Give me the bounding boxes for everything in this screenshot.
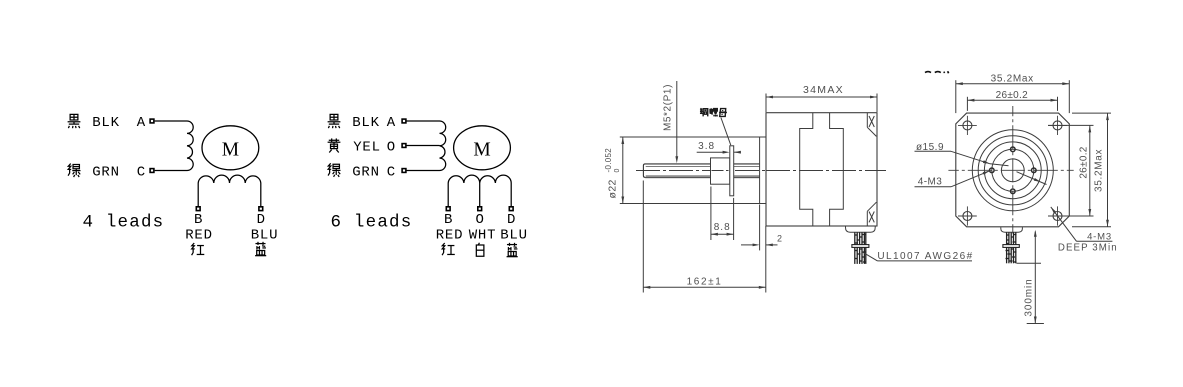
label O [475,212,483,228]
label RED [185,228,213,244]
wire A to coil [155,120,187,122]
pilot circle inner [1001,159,1024,182]
lead wire grommet (side view) [846,226,876,232]
label WHT [469,228,497,244]
M3 tapped hole E [1032,168,1037,173]
svg-text:8.8: 8.8 [714,222,731,233]
svg-text:O: O [475,212,483,228]
svg-text:35.2Max: 35.2Max [991,74,1034,85]
M3 tapped hole W [990,168,995,173]
svg-text:BLK: BLK [92,115,120,131]
svg-text:BLK: BLK [352,115,380,131]
wiring label GRN C (4-lead) [68,164,145,181]
terminal C (6-lead) [402,169,406,173]
dim 35.2Max(right) text [1094,149,1105,192]
svg-text:-0.052: -0.052 [604,148,613,173]
nut body (copper nut) [711,158,730,184]
dim 300min line [1034,230,1037,324]
dim 3.8 text [698,141,715,152]
motor M (6-lead) [454,126,511,170]
front face plate [956,113,1070,227]
label BLU [500,228,528,244]
motor body (side view) [766,113,877,226]
label ø15.9 leader inner segment [1017,172,1047,185]
caption 4 leads [82,213,164,233]
svg-text:34MAX: 34MAX [803,84,844,96]
svg-text:C: C [137,165,145,181]
dim 26±0.2(top) text [996,90,1028,101]
svg-text:UL1007 AWG26#: UL1007 AWG26# [877,251,973,262]
dim 35.2Max(right) ext lines [1072,113,1111,227]
terminal B (4-lead) [196,207,200,211]
concentric circle r40.5 [972,130,1053,211]
dim 35.2Max(top) ext lines [956,80,1070,113]
svg-text:26±0.2: 26±0.2 [1078,146,1089,178]
label 4-M3 text [918,177,942,188]
leader UL1007 [862,252,973,261]
svg-text:2: 2 [777,234,782,244]
label hong (red cn) [192,243,205,255]
svg-text:0: 0 [614,168,621,172]
dim 34MAX ext lines [766,94,877,113]
wiring label BLK A (4-lead) [68,114,146,131]
lead wire bundle (front view) [1006,232,1017,263]
wiring label GRN C (6-lead) [328,163,395,180]
wire coil to terminal B [197,183,199,206]
dim 300min ext line [1017,262,1042,264]
svg-text:O: O [387,140,395,156]
svg-text:BLU: BLU [251,228,279,244]
stator stack outline [800,113,844,226]
mounting hole bottom-left [958,206,977,225]
terminal D (6-lead) [509,207,513,211]
front view vertical centerline [1012,106,1014,234]
label UL1007 AWG26# [877,251,973,262]
svg-text:M: M [222,139,239,160]
concentric circle r28.4 [984,142,1041,199]
label ø15.9 text [916,142,944,153]
svg-text:RED: RED [436,228,464,244]
wire C to coil [155,170,187,172]
svg-text:GRN: GRN [92,165,120,181]
label D [507,212,515,228]
svg-text:162±1: 162±1 [687,276,723,287]
wire coil to terminal D [260,183,262,206]
lead wire grommet (front view) [1001,227,1023,232]
svg-text:B: B [194,212,202,228]
M3 tapped hole S [1011,189,1016,194]
label D [257,212,265,228]
label BLU [251,228,279,244]
dim ø22 ext lines [620,137,760,204]
motor M (4-lead) [202,126,259,170]
dim M5 leader [675,81,678,163]
dim 300min end tick [1027,323,1044,325]
wiring label YEL O (6-lead) [328,138,396,155]
dim ø22 tolerance text [604,148,621,199]
coil A-C (4-lead phase 1) [187,121,193,171]
label lan (blue cn) [507,243,518,257]
svg-text:RED: RED [185,228,213,244]
coil A-O-C (6-lead phase 1) [440,121,446,171]
label 4-M3 DEEP leader [1051,207,1113,241]
shaft centerline [636,170,886,172]
wiring label BLK A (6-lead) [328,114,396,131]
coil B-D (4-lead phase 2) [198,175,261,183]
mounting hole top-right [1048,116,1067,135]
svg-text:M5*2(P1): M5*2(P1) [663,84,674,131]
svg-text:D: D [507,212,515,228]
mounting hole bottom-right [1048,206,1067,225]
pilot boss (side view) [760,137,766,204]
svg-text:A: A [137,115,146,131]
concentric circle r34.6 [978,136,1047,205]
mounting hole top-left [958,116,977,135]
clipped text remnant [925,71,949,73]
label B [444,212,452,228]
wire collar (side view) [852,245,869,248]
nut centerline dash [712,170,759,172]
svg-text:26±0.2: 26±0.2 [996,90,1028,101]
wire coil to terminal D [510,183,512,206]
wire A to coil [406,120,439,122]
wire coil to terminal B [447,183,449,206]
dim 35.2Max(top) line [956,82,1070,85]
terminal A (4-lead) [150,119,154,123]
dim 35.2Max(top) text [991,74,1034,85]
terminal C (4-lead) [150,169,154,173]
coil B-O-D (6-lead phase 2) [448,175,511,183]
label B [194,212,202,228]
wire collar (front view) [1003,245,1019,248]
dim ø22 line [621,137,624,204]
terminal A (6-lead) [402,119,406,123]
dim 300min text [1024,278,1035,316]
svg-text:WHT: WHT [469,228,497,244]
dim 162±1 text [687,276,723,287]
wire center tap to terminal O [479,183,481,206]
front view horizontal centerline [948,169,1073,171]
label copper nut (cn) [700,108,727,116]
svg-text:6 leads: 6 leads [331,213,413,233]
terminal O (6-lead) [402,144,406,148]
label hong (red cn) [442,243,455,255]
lead wire bundle (side view) [855,232,867,264]
M3 tapped hole N [1011,147,1016,152]
svg-text:BLU: BLU [500,228,528,244]
lead screw shaft [643,164,759,178]
terminal B (6-lead) [446,207,450,211]
svg-text:300min: 300min [1024,278,1035,316]
svg-text:35.2Max: 35.2Max [1094,149,1105,192]
dim 2 ext lines [760,205,766,293]
svg-text:B: B [444,212,452,228]
dim 26±0.2(top) line [967,99,1057,102]
wire O to coil center tap [406,145,439,147]
dim 162 line [643,286,766,289]
dim 8.8 ext lines [711,187,734,241]
svg-text:A: A [387,115,396,131]
svg-text:4-M3: 4-M3 [918,177,942,188]
label bai (white cn) [476,243,484,256]
dim 26±0.2(right) text [1078,146,1089,178]
svg-text:3.8: 3.8 [698,141,715,152]
dim 34MAX text [803,84,844,96]
label 4-M3 leader [915,171,990,187]
corner chamfer mark top-right [867,113,876,137]
dim 34MAX line [766,96,877,99]
terminal D (4-lead) [259,207,263,211]
dim 26±0.2(top) ext lines [967,97,1057,111]
dim 162 ext line left [642,181,644,293]
svg-text:4-M3: 4-M3 [1087,232,1112,243]
corner chamfer mark bottom-right [867,202,876,226]
body centerline segment [766,170,886,172]
terminal O2 (6-lead) [478,207,482,211]
caption 6 leads [331,213,413,233]
label ø15.9 leader [915,151,1009,166]
dim 8.8 line [711,233,734,236]
svg-text:DEEP 3Min: DEEP 3Min [1058,243,1118,254]
leader copper nut [721,118,731,146]
wire C to coil [406,170,439,172]
dim M5*2(P1) text [663,84,674,131]
svg-text:GRN: GRN [352,164,380,180]
label 4-M3 DEEP text [1058,232,1118,254]
label RED [436,228,464,244]
label lan (blue cn) [255,242,266,256]
dim 26±0.2(right) line [1088,125,1091,216]
svg-text:D: D [257,212,265,228]
svg-text:M: M [473,139,490,160]
dim 2 text [777,234,782,244]
svg-text:ø22: ø22 [607,179,619,198]
svg-text:4 leads: 4 leads [82,213,164,233]
dim 3.8 underline+arrows [697,151,741,154]
svg-text:C: C [387,164,395,180]
svg-text:YEL: YEL [353,140,381,156]
dim 8.8 text [714,222,731,233]
concentric circle r21.0 [992,149,1034,191]
dim 35.2Max(right) line [1106,113,1109,227]
dim 2 line [741,244,778,247]
dim 26±0.2(right) ext lines [1048,125,1094,216]
nut flange [730,146,734,196]
